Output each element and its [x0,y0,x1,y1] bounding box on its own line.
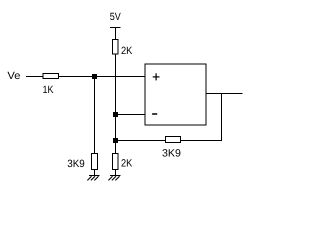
svg-text:2K: 2K [121,157,132,169]
svg-text:5V: 5V [110,11,121,23]
svg-text:3K9: 3K9 [67,158,85,170]
svg-text:2K: 2K [121,45,132,57]
svg-text:3K9: 3K9 [162,147,181,159]
svg-text:1K: 1K [43,84,54,96]
svg-text:Ve: Ve [7,70,20,82]
